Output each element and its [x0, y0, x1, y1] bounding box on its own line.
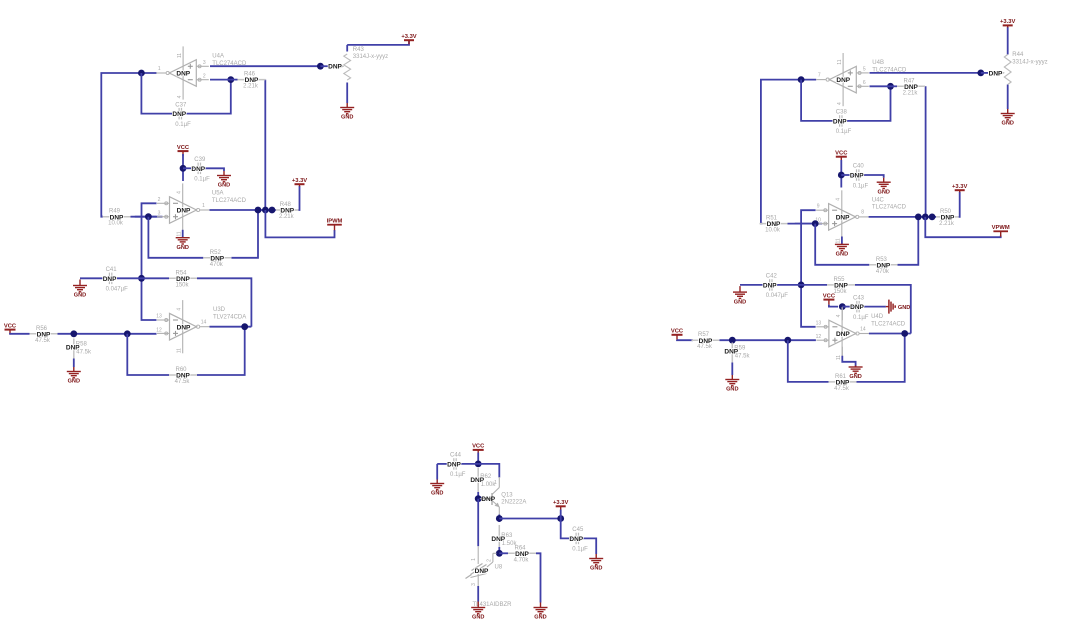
capacitor C39 — [191, 157, 210, 183]
node junction — [227, 76, 234, 83]
svg-text:GND: GND — [849, 374, 861, 380]
svg-text:2N2222A: 2N2222A — [501, 500, 526, 506]
wire — [720, 339, 816, 341]
wire — [959, 192, 960, 217]
resistor R48 — [276, 202, 299, 220]
wire — [265, 210, 334, 237]
wire — [187, 80, 231, 114]
svg-text:VPWM: VPWM — [992, 225, 1010, 231]
capacitor C37 — [172, 102, 191, 128]
ground — [849, 366, 863, 381]
ground — [835, 244, 849, 258]
svg-text:DNP: DNP — [941, 215, 955, 222]
svg-text:C37: C37 — [175, 102, 187, 108]
svg-text:0.1µF: 0.1µF — [836, 129, 852, 135]
wire — [841, 308, 843, 320]
svg-text:U4D: U4D — [871, 314, 884, 320]
node junction — [798, 76, 805, 83]
svg-text:0.1µF: 0.1µF — [572, 547, 588, 553]
svg-text:GND: GND — [1001, 121, 1013, 127]
wire — [148, 217, 203, 258]
svg-text:2: 2 — [158, 197, 161, 203]
svg-text:+3.3V: +3.3V — [401, 34, 416, 40]
wire — [452, 463, 478, 465]
svg-text:DNP: DNP — [66, 345, 80, 352]
wire — [436, 464, 438, 480]
svg-text:Q13: Q13 — [501, 492, 513, 498]
node junction — [729, 337, 736, 344]
svg-text:TLC274ACD: TLC274ACD — [872, 205, 907, 211]
ground — [534, 603, 548, 621]
node junction — [475, 461, 482, 468]
svg-text:DNP: DNP — [103, 276, 117, 283]
wire — [740, 284, 765, 286]
svg-text:12: 12 — [156, 327, 162, 333]
svg-text:13: 13 — [816, 320, 822, 326]
wire — [183, 167, 198, 169]
ground — [877, 178, 891, 196]
resistor R47 — [897, 78, 925, 96]
svg-text:U5A: U5A — [212, 191, 224, 197]
svg-text:IPWM: IPWM — [327, 219, 343, 225]
capacitor C40 — [850, 164, 869, 190]
svg-text:GND: GND — [534, 615, 546, 621]
wire — [870, 72, 981, 74]
power VCC — [472, 444, 485, 455]
svg-text:150k: 150k — [833, 289, 847, 295]
node junction — [887, 83, 894, 90]
svg-text:0.047µF: 0.047µF — [766, 293, 788, 299]
svg-text:47.5k: 47.5k — [697, 344, 713, 350]
node junction — [812, 220, 819, 227]
svg-text:GND: GND — [472, 615, 484, 621]
svg-text:R43: R43 — [353, 47, 365, 53]
svg-text:11: 11 — [177, 348, 183, 353]
svg-text:DNP: DNP — [904, 84, 918, 91]
shunt reference U8 — [466, 546, 513, 608]
svg-text:8: 8 — [861, 210, 864, 216]
svg-text:13: 13 — [156, 314, 162, 320]
svg-text:VCC: VCC — [4, 323, 17, 329]
wire — [801, 284, 827, 286]
svg-text:DNP: DNP — [850, 173, 864, 180]
wire — [842, 356, 855, 367]
svg-text:U4B: U4B — [872, 60, 884, 66]
svg-text:C40: C40 — [853, 164, 865, 170]
svg-text:3: 3 — [158, 211, 161, 217]
svg-text:DNP: DNP — [191, 166, 205, 173]
node junction — [269, 207, 276, 214]
wire — [925, 86, 927, 217]
wire — [201, 168, 224, 171]
svg-text:2.21k: 2.21k — [939, 221, 955, 227]
wire — [886, 306, 889, 308]
svg-text:DNP: DNP — [470, 477, 484, 484]
svg-text:GND: GND — [590, 566, 602, 572]
svg-text:GND: GND — [74, 293, 86, 299]
wire — [80, 277, 105, 279]
wire — [210, 79, 231, 81]
wire — [925, 217, 1000, 237]
wire — [841, 174, 856, 176]
wire — [855, 285, 911, 334]
wire — [847, 86, 891, 121]
wire — [1007, 85, 1009, 110]
wire — [210, 326, 252, 328]
node junction — [839, 303, 846, 310]
power +3.3V — [952, 184, 967, 192]
svg-text:11: 11 — [177, 231, 183, 236]
svg-text:11: 11 — [177, 53, 183, 58]
capacitor C38 — [833, 110, 852, 136]
wire — [58, 333, 157, 335]
wire — [536, 553, 541, 602]
wire — [437, 463, 448, 465]
wire — [498, 547, 500, 553]
wire — [101, 73, 156, 217]
resistor R50 — [936, 209, 959, 227]
power +3.3V — [553, 500, 568, 510]
svg-text:11: 11 — [837, 59, 843, 64]
wire — [117, 277, 142, 279]
svg-text:+3.3V: +3.3V — [1000, 19, 1015, 25]
capacitor C42 — [763, 274, 788, 300]
resistor R61 — [829, 374, 857, 392]
wire — [346, 45, 348, 52]
wire — [840, 160, 842, 188]
op-amp U4B — [816, 53, 907, 106]
svg-text:DNP: DNP — [836, 215, 850, 222]
svg-text:DNP: DNP — [328, 64, 342, 71]
wire — [142, 203, 157, 320]
resistor R46 — [238, 72, 266, 90]
capacitor C43 — [850, 295, 869, 321]
svg-text:DNP: DNP — [176, 276, 190, 283]
svg-text:11: 11 — [836, 238, 842, 243]
wire — [841, 347, 843, 356]
wire — [499, 518, 560, 520]
svg-text:DNP: DNP — [877, 262, 891, 269]
svg-text:6: 6 — [863, 80, 866, 86]
svg-text:C39: C39 — [194, 157, 206, 163]
svg-text:C41: C41 — [106, 267, 118, 273]
svg-text:0.1µF: 0.1µF — [194, 177, 210, 183]
svg-text:DNP: DNP — [491, 536, 505, 543]
svg-text:GND: GND — [734, 299, 746, 305]
wire — [677, 339, 693, 341]
wire — [842, 306, 856, 308]
power VCC — [671, 329, 684, 340]
svg-text:3: 3 — [203, 60, 206, 66]
wire — [299, 186, 300, 210]
svg-text:C38: C38 — [836, 110, 848, 116]
svg-text:U4C: U4C — [872, 197, 885, 203]
wire — [477, 586, 479, 602]
resistor R43 — [328, 47, 388, 80]
resistor R58 — [66, 339, 92, 359]
node junction — [784, 337, 791, 344]
svg-text:DNP: DNP — [989, 70, 1003, 77]
wire — [815, 224, 869, 265]
wire — [841, 237, 843, 244]
wire — [795, 223, 816, 225]
svg-text:14: 14 — [860, 326, 866, 332]
svg-text:DNP: DNP — [177, 208, 191, 215]
wire — [182, 154, 184, 181]
wire — [898, 217, 919, 265]
svg-text:DNP: DNP — [210, 255, 224, 262]
wire — [210, 65, 320, 67]
svg-text:DNP: DNP — [836, 331, 850, 338]
node junction — [798, 282, 805, 289]
node junction — [929, 214, 936, 221]
svg-text:1: 1 — [494, 480, 497, 486]
wire — [869, 333, 911, 335]
wire — [477, 492, 479, 499]
ground — [725, 375, 739, 393]
svg-text:GND: GND — [176, 245, 188, 251]
svg-text:DNP: DNP — [481, 496, 495, 503]
svg-text:VCC: VCC — [472, 444, 485, 450]
svg-text:DNP: DNP — [834, 283, 848, 290]
svg-text:+3.3V: +3.3V — [553, 500, 568, 506]
svg-text:3: 3 — [471, 583, 477, 586]
resistor R44 — [989, 52, 1048, 84]
power +3.3V — [1000, 19, 1015, 27]
svg-text:2.21k: 2.21k — [279, 214, 295, 220]
svg-text:C44: C44 — [450, 453, 462, 459]
svg-text:4: 4 — [836, 198, 842, 201]
resistor R63 — [491, 525, 517, 547]
svg-text:U8: U8 — [495, 565, 503, 571]
node junction — [475, 495, 482, 502]
wire — [860, 175, 884, 178]
resistor R53 — [869, 257, 897, 275]
svg-text:GND: GND — [726, 387, 738, 393]
wire — [231, 79, 238, 81]
svg-text:4.70k: 4.70k — [514, 557, 530, 563]
svg-text:TLC274ACD: TLC274ACD — [872, 67, 907, 73]
ground — [430, 480, 444, 497]
svg-text:0.047µF: 0.047µF — [106, 287, 128, 293]
svg-text:DNP: DNP — [836, 380, 850, 387]
wire — [477, 499, 479, 547]
wire — [761, 80, 816, 224]
svg-text:470k: 470k — [876, 269, 890, 275]
wire — [801, 210, 816, 327]
ground — [176, 237, 190, 251]
op-amp U4D — [816, 307, 906, 360]
svg-text:47.5k: 47.5k — [834, 386, 850, 392]
svg-text:DNP: DNP — [177, 324, 191, 331]
svg-text:C42: C42 — [766, 274, 778, 280]
svg-text:GND: GND — [898, 305, 910, 311]
resistor R57 — [692, 332, 720, 350]
svg-text:3314J-x-yyyz: 3314J-x-yyyz — [1012, 60, 1047, 66]
ground — [589, 554, 603, 572]
node junction — [70, 330, 77, 337]
svg-text:TLC274ACD: TLC274ACD — [212, 198, 247, 204]
svg-text:10.0k: 10.0k — [765, 228, 781, 234]
wire — [731, 363, 733, 376]
svg-text:DNP: DNP — [176, 71, 190, 78]
wire — [478, 464, 499, 478]
svg-text:4: 4 — [837, 102, 843, 105]
node junction — [138, 275, 145, 282]
resistor R51 — [760, 216, 788, 234]
wire — [498, 515, 500, 523]
power VCC — [835, 151, 848, 162]
resistor R49 — [103, 209, 131, 227]
power VCC — [823, 293, 836, 304]
node junction — [922, 214, 929, 221]
svg-text:DNP: DNP — [724, 349, 738, 356]
wire — [347, 41, 409, 45]
power VCC — [4, 323, 17, 334]
ground — [67, 367, 81, 385]
node junction — [241, 323, 248, 330]
svg-text:U3D: U3D — [213, 307, 226, 313]
wire — [141, 73, 174, 114]
svg-text:GND: GND — [218, 183, 230, 189]
op-amp U3D — [156, 300, 246, 353]
svg-text:DNP: DNP — [245, 77, 259, 84]
ground — [340, 103, 354, 121]
svg-text:0.1µF: 0.1µF — [450, 472, 466, 478]
node junction — [915, 214, 922, 221]
svg-text:10.0k: 10.0k — [108, 221, 124, 227]
resistor R59 — [724, 343, 750, 363]
capacitor C45 — [569, 527, 588, 553]
wire — [197, 278, 251, 326]
svg-text:VCC: VCC — [177, 145, 190, 151]
transistor Q13 — [480, 477, 527, 515]
svg-text:DNP: DNP — [569, 536, 583, 543]
resistor R60 — [169, 367, 197, 385]
ground — [217, 171, 231, 189]
svg-text:0.1µF: 0.1µF — [175, 122, 191, 128]
wire — [869, 216, 936, 218]
svg-text:GND: GND — [836, 252, 848, 258]
node junction — [838, 172, 845, 179]
node IPWM — [327, 219, 343, 231]
node junction — [557, 515, 564, 522]
node junction — [145, 213, 152, 220]
resistor R55 — [827, 277, 855, 295]
svg-text:2.21k: 2.21k — [243, 84, 259, 90]
svg-text:DNP: DNP — [833, 119, 847, 126]
wire — [142, 277, 170, 279]
svg-text:14: 14 — [201, 320, 207, 326]
wire — [561, 519, 574, 539]
ground — [1001, 109, 1015, 127]
wire — [73, 359, 75, 368]
svg-text:9: 9 — [817, 204, 820, 210]
op-amp U5A — [157, 183, 247, 236]
svg-text:DNP: DNP — [850, 304, 864, 311]
svg-text:C45: C45 — [572, 527, 584, 533]
svg-text:TLV274CDA: TLV274CDA — [213, 315, 246, 321]
node junction — [255, 207, 262, 214]
wire — [210, 209, 277, 211]
wire — [131, 216, 163, 218]
wire — [10, 333, 30, 336]
svg-text:GND: GND — [68, 379, 80, 385]
svg-text:2: 2 — [486, 559, 492, 562]
wire — [320, 65, 328, 67]
svg-text:R44: R44 — [1012, 52, 1024, 58]
capacitor C41 — [103, 267, 128, 293]
node junction — [180, 165, 187, 172]
wire — [891, 85, 898, 87]
power +3.3V — [292, 178, 307, 186]
svg-text:150k: 150k — [175, 282, 189, 288]
node VPWM — [992, 225, 1010, 237]
op-amp U4A — [156, 46, 247, 99]
svg-text:2: 2 — [203, 74, 206, 80]
node junction — [901, 330, 908, 337]
svg-text:DNP: DNP — [110, 214, 124, 221]
wire — [560, 510, 562, 519]
svg-text:GND: GND — [877, 189, 889, 195]
wire — [231, 210, 258, 258]
ground — [73, 280, 87, 299]
svg-text:1: 1 — [158, 66, 161, 72]
svg-text:4: 4 — [177, 191, 183, 194]
svg-text:3314J-x-yyyz: 3314J-x-yyyz — [353, 54, 388, 60]
svg-text:TLC274ACD: TLC274ACD — [212, 61, 247, 67]
resistor R64 — [508, 545, 536, 563]
power +3.3V — [401, 34, 416, 44]
svg-text:DNP: DNP — [475, 568, 489, 575]
resistor R52 — [203, 250, 231, 268]
resistor R56 — [30, 326, 58, 344]
node junction — [317, 63, 324, 70]
wire — [860, 306, 886, 308]
svg-text:C43: C43 — [853, 295, 865, 301]
svg-text:11: 11 — [836, 355, 842, 360]
resistor R62 — [470, 468, 496, 494]
svg-text:4: 4 — [177, 95, 183, 98]
svg-text:DNP: DNP — [172, 111, 186, 118]
wire — [346, 83, 348, 104]
node junction — [124, 330, 131, 337]
wire — [1007, 27, 1009, 55]
node junction — [977, 70, 984, 77]
svg-text:0.1µF: 0.1µF — [853, 183, 869, 189]
svg-text:DNP: DNP — [280, 208, 294, 215]
svg-text:DNP: DNP — [515, 551, 529, 558]
wire — [182, 230, 184, 237]
wire — [788, 340, 829, 382]
wire — [581, 538, 596, 554]
svg-text:VCC: VCC — [671, 329, 684, 335]
svg-text:DNP: DNP — [836, 77, 850, 84]
svg-text:DNP: DNP — [763, 283, 777, 290]
svg-text:+3.3V: +3.3V — [292, 178, 307, 184]
node junction — [496, 550, 503, 557]
power VCC — [177, 145, 190, 156]
svg-text:DNP: DNP — [767, 221, 781, 228]
svg-text:+3.3V: +3.3V — [952, 184, 967, 190]
svg-text:DNP: DNP — [37, 331, 51, 338]
svg-text:DNP: DNP — [699, 338, 713, 345]
wire — [829, 305, 838, 307]
svg-text:0.1µF: 0.1µF — [853, 315, 869, 321]
wire — [777, 284, 801, 286]
wire — [135, 216, 157, 218]
ground — [733, 286, 747, 305]
